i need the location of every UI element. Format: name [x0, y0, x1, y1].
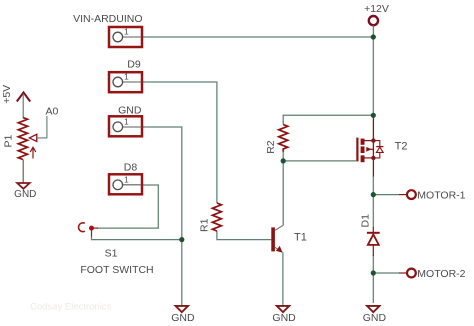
potentiometer P1 wiper arrow: [29, 134, 37, 141]
header GND box: [109, 116, 142, 136]
mosfet T2 drain connector: [365, 140, 374, 142]
diode D1 cathode pin: [372, 227, 374, 233]
wire D1 anode to MOTOR-2 node: [372, 255, 374, 273]
mosfet T2 channel dash body: [361, 146, 365, 153]
wire rail to R2 top: [283, 115, 373, 124]
mosfet T2 body diode loop: [373, 141, 379, 158]
mosfet T2 drain-source line: [372, 141, 374, 158]
svg-text:T2: T2: [395, 141, 408, 153]
svg-text:MOTOR-1: MOTOR-1: [417, 190, 465, 202]
wire VIN-ARDUINO to +12V rail: [123, 36, 373, 38]
switch S1 arc contact: [79, 223, 85, 232]
switch S1 pin to D8 wire: [92, 227, 99, 229]
svg-text:FOOT SWITCH: FOOT SWITCH: [80, 264, 153, 276]
diode D1 triangle: [368, 234, 379, 245]
svg-text:A0: A0: [46, 105, 59, 117]
wire MOTOR-1 node to D1 cathode: [372, 195, 374, 228]
svg-text:1: 1: [124, 175, 129, 185]
wire R1 bottom to T1 base: [217, 231, 271, 240]
ground below P1: [17, 183, 29, 189]
svg-text:S1: S1: [105, 248, 118, 260]
wire MOTOR-2 stub: [373, 272, 399, 274]
svg-text:MOTOR-2: MOTOR-2: [417, 268, 465, 280]
wire MOTOR-2 node to ground: [372, 273, 374, 303]
wire R2 bottom to gate node: [282, 152, 284, 161]
svg-text:Codsay Electronics: Codsay Electronics: [30, 302, 112, 313]
supply +12V stem: [372, 25, 374, 37]
supply +12V circle: [369, 16, 378, 25]
wire MOTOR-1 stub: [373, 194, 399, 196]
mosfet T2 body diode triangle: [376, 147, 383, 152]
wire +12V rail vertical: [372, 37, 374, 115]
svg-text:1: 1: [124, 117, 129, 127]
wire T2 source to MOTOR-1 node: [372, 176, 374, 195]
junction at switch ground: [179, 237, 184, 242]
svg-text:D8: D8: [124, 162, 138, 174]
ground below D1: [367, 306, 379, 312]
svg-text:GND: GND: [118, 104, 142, 116]
mosfet T2 body arrow: [366, 147, 371, 152]
mosfet T2 gate bar: [356, 138, 358, 162]
wire switch pole to ground junction: [92, 236, 182, 240]
terminal MOTOR-2 pin: [399, 272, 407, 274]
svg-text:GND: GND: [14, 189, 36, 200]
resistor R1 zigzag: [212, 203, 221, 231]
supply +5V arrow: [17, 92, 30, 101]
resistor R2 zigzag: [279, 125, 288, 152]
svg-text:1: 1: [124, 27, 129, 37]
wire D8 to switch contact: [97, 185, 158, 228]
potentiometer P1 zigzag: [18, 118, 27, 160]
svg-text:D1: D1: [359, 214, 371, 228]
terminal MOTOR-2 circle: [407, 269, 416, 278]
ground below switch rail: [176, 306, 188, 312]
transistor T1 emitter arrow: [276, 246, 283, 253]
transistor T1 collector diagonal: [275, 225, 283, 230]
mosfet T2 channel dash drain: [361, 139, 365, 145]
wire GND header to ground rail: [123, 127, 182, 306]
header VIN-ARDUINO box: [109, 27, 142, 47]
diode D1 cathode bar: [367, 232, 380, 234]
wire P1 bottom to ground: [22, 160, 24, 184]
mosfet T2 internal node dots: [371, 138, 375, 142]
svg-text:R2: R2: [265, 140, 277, 154]
diode D1 anode pin: [372, 245, 374, 256]
svg-text:R1: R1: [199, 218, 211, 232]
junction at MOTOR-1 node: [371, 192, 376, 197]
svg-text:GND: GND: [363, 312, 387, 324]
mosfet T2 channel dash source: [361, 155, 365, 162]
junction at R2 rail tap: [371, 113, 376, 118]
svg-text:VIN-ARDUINO: VIN-ARDUINO: [73, 13, 142, 25]
terminal MOTOR-1 pin: [399, 194, 407, 196]
svg-text:P1: P1: [2, 134, 14, 147]
potentiometer P1 adjust arrow: [30, 147, 36, 158]
junction at MOTOR-2 node: [371, 270, 376, 275]
terminal MOTOR-1 circle: [407, 190, 416, 199]
transistor T1 emitter diagonal: [275, 247, 282, 252]
junction at gate node: [281, 158, 286, 163]
mosfet T2 source connector: [365, 157, 374, 159]
wire gate node down to T1 collector: [282, 161, 284, 226]
ground below T1: [277, 306, 289, 312]
svg-text:GND: GND: [171, 312, 195, 324]
mosfet T2 body diode cathode bar: [376, 146, 383, 148]
svg-text:+5V: +5V: [1, 85, 13, 104]
wire gate node to T2 gate: [283, 160, 356, 162]
supply +5V stem: [22, 94, 24, 118]
mosfet T2 body arrow line: [371, 148, 374, 150]
svg-text:1: 1: [124, 72, 129, 82]
svg-text:GND: GND: [272, 312, 296, 324]
mosfet T2 drain pin: [372, 115, 374, 140]
svg-text:T1: T1: [294, 231, 307, 243]
header D8 box: [109, 174, 142, 194]
wire D9 to R1 top: [123, 82, 217, 203]
switch S1 pole dot: [89, 226, 94, 231]
wire T1 emitter to ground: [282, 253, 284, 306]
mosfet T2 source pin: [372, 158, 374, 177]
svg-text:+12V: +12V: [364, 3, 389, 15]
wire A0 to wiper: [37, 116, 47, 138]
header D9 box: [109, 72, 142, 92]
switch S1 pin down: [91, 228, 93, 236]
junction at +12V tap: [371, 34, 376, 39]
transistor T1 base bar: [271, 227, 275, 251]
svg-text:D9: D9: [127, 59, 141, 71]
